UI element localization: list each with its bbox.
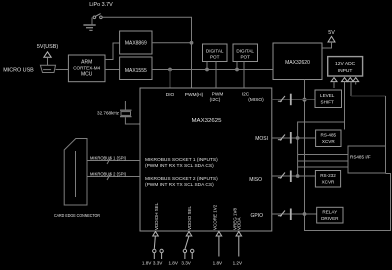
- svg-text:MIKROBUS 1 (SPI): MIKROBUS 1 (SPI): [90, 156, 126, 161]
- jumper JP6: [278, 171, 291, 183]
- wire edge bus 1: [87, 156, 140, 165]
- wire mcu out 1: [272, 137, 316, 139]
- regulator U2: [120, 31, 152, 54]
- connector label box: [348, 146, 386, 173]
- svg-text:MIKROBUS SOCKET 2 (INPUTS): MIKROBUS SOCKET 2 (INPUTS): [145, 176, 218, 182]
- svg-text:VCORE 1V2: VCORE 1V2: [213, 204, 218, 230]
- wire adc stub 4: [355, 82, 357, 85]
- svg-text:3.3V: 3.3V: [181, 261, 191, 266]
- jumper JP5: [278, 132, 291, 144]
- svg-text:DIO: DIO: [166, 92, 175, 98]
- box D relay: [317, 207, 343, 223]
- svg-text:POT: POT: [240, 55, 250, 60]
- wire rail A: [305, 80, 391, 231]
- jumper JP7: [278, 209, 291, 221]
- svg-text:PWM: PWM: [212, 92, 224, 98]
- wire adc stub 1: [333, 82, 335, 88]
- svg-text:(PWM INT RX TX SCL SDA CS): (PWM INT RX TX SCL SDA CS): [145, 163, 214, 169]
- node junction dot gpio: [303, 213, 306, 216]
- rf U7: [273, 43, 322, 80]
- svg-text:MIKROBUS SOCKET 1 (INPUTS): MIKROBUS SOCKET 1 (INPUTS): [145, 157, 218, 163]
- node junction dot DIO: [169, 68, 172, 71]
- wire pot2 right pin: [243, 62, 245, 89]
- svg-text:RELAY: RELAY: [322, 210, 337, 215]
- wire pot2 left pin: [236, 62, 238, 70]
- svg-text:XCVR: XCVR: [322, 180, 335, 185]
- wire to box A: [272, 99, 315, 101]
- svg-text:32.768kHz: 32.768kHz: [97, 111, 120, 116]
- svg-text:1.2V: 1.2V: [233, 261, 243, 266]
- svg-text:MCU: MCU: [81, 72, 93, 78]
- svg-text:MAX1555: MAX1555: [125, 68, 147, 74]
- node junction dot pot1: [206, 68, 209, 71]
- svg-text:VDDA: VDDA: [237, 217, 242, 230]
- jumper JP2: [168, 232, 193, 266]
- box A level shifter: [315, 90, 342, 108]
- jumper JP1: [142, 232, 163, 266]
- power arrow 1V2: [233, 232, 243, 266]
- svg-text:1.8V: 1.8V: [142, 261, 152, 266]
- wire adc to railB: [344, 82, 346, 130]
- edge connector J3: [54, 139, 100, 220]
- power arrow 1V8: [213, 232, 223, 266]
- wire rail B: [298, 122, 345, 176]
- svg-text:INPUT: INPUT: [338, 68, 353, 74]
- regulator U3: [120, 57, 152, 80]
- svg-text:(PWM INT RX TX SCL SDA CS): (PWM INT RX TX SCL SDA CS): [145, 182, 214, 188]
- svg-text:5V(USB): 5V(USB): [37, 44, 58, 50]
- wire regulator1 output to rail: [152, 42, 192, 44]
- wire edge bus 2: [87, 172, 140, 181]
- svg-text:MAX32625: MAX32625: [192, 118, 222, 124]
- connector J1 micro usb: [3, 65, 55, 73]
- svg-text:1.8V: 1.8V: [213, 261, 223, 266]
- wire charger to regulator 2: [105, 69, 120, 71]
- node junction dot railB wire2: [296, 175, 299, 178]
- svg-text:VDDIO SEL: VDDIO SEL: [187, 205, 192, 230]
- switch SW1: [93, 14, 102, 19]
- crystal Y1: [97, 101, 140, 124]
- wire mcu out 3 gpio: [272, 213, 317, 215]
- svg-text:1.8V: 1.8V: [168, 261, 178, 266]
- wire bus line 3: [298, 166, 348, 168]
- svg-text:5V: 5V: [328, 30, 335, 36]
- wire adc to bracket: [350, 82, 352, 96]
- node junction dot railB wire1: [296, 137, 299, 140]
- wire top rail from switch to PWM pin: [102, 17, 191, 88]
- svg-text:DIGITAL: DIGITAL: [236, 49, 254, 54]
- wire bus line 1: [298, 154, 348, 156]
- svg-text:VDDIOH SEL: VDDIOH SEL: [154, 202, 159, 230]
- wire DIO drop: [169, 70, 171, 89]
- wire bus line 2: [298, 160, 348, 162]
- wire pot1 right pin: [215, 62, 217, 89]
- ground: [83, 18, 95, 31]
- svg-text:MOSI: MOSI: [255, 136, 268, 142]
- adc J2: [328, 57, 363, 76]
- wire charger to regulator 1: [105, 43, 120, 60]
- adc arrows: [331, 78, 359, 82]
- svg-text:CORTEX-M4: CORTEX-M4: [73, 66, 100, 71]
- node junction dot box A: [303, 98, 306, 101]
- svg-text:(MISO): (MISO): [248, 97, 264, 103]
- svg-text:PWM(H): PWM(H): [185, 92, 204, 98]
- svg-text:GPIO: GPIO: [250, 213, 263, 219]
- wire mcu out 2: [272, 175, 316, 177]
- charger U1: [68, 55, 105, 82]
- node 5V(USB) flag: [37, 44, 58, 65]
- svg-text:XCVR: XCVR: [322, 139, 335, 144]
- svg-text:LEVEL: LEVEL: [320, 93, 335, 98]
- svg-text:SHIFT: SHIFT: [321, 100, 334, 105]
- svg-text:MAX8869: MAX8869: [125, 41, 147, 47]
- svg-text:DRIVER: DRIVER: [321, 216, 339, 221]
- mcu U4: [140, 88, 272, 231]
- node junction dot: [190, 41, 193, 44]
- box B rs485: [316, 130, 341, 147]
- jumper JP4: [278, 94, 291, 106]
- svg-text:LiPo 3.7V: LiPo 3.7V: [89, 2, 113, 8]
- svg-text:RS485 I/F: RS485 I/F: [350, 155, 371, 160]
- wire usb to charger: [56, 69, 69, 71]
- svg-text:(I2C): (I2C): [210, 97, 221, 103]
- svg-text:I2C: I2C: [242, 92, 250, 98]
- box C rs232: [315, 171, 340, 188]
- wire 3.3V rail: [152, 69, 273, 71]
- svg-text:MICRO USB: MICRO USB: [3, 68, 34, 74]
- wire pot1 left pin: [206, 62, 208, 70]
- node 5V flag: [322, 30, 335, 48]
- svg-text:POT: POT: [210, 55, 220, 60]
- svg-text:DIGITAL: DIGITAL: [206, 49, 224, 54]
- digital pot U5: [203, 44, 228, 62]
- svg-text:MIKROBUS 2 (SPI): MIKROBUS 2 (SPI): [90, 172, 126, 177]
- svg-text:CARD EDGE CONNECTOR: CARD EDGE CONNECTOR: [54, 213, 100, 219]
- svg-text:RS-232: RS-232: [320, 173, 336, 178]
- svg-text:RS-485: RS-485: [321, 133, 337, 138]
- svg-text:12V ADC: 12V ADC: [335, 61, 356, 67]
- digital pot U6: [233, 44, 258, 62]
- svg-text:MAX32620: MAX32620: [285, 60, 310, 66]
- node junction dot pot2: [236, 68, 239, 71]
- svg-text:MISO: MISO: [249, 177, 262, 183]
- battery label BT1: [89, 2, 113, 8]
- svg-text:3.3V: 3.3V: [153, 261, 163, 266]
